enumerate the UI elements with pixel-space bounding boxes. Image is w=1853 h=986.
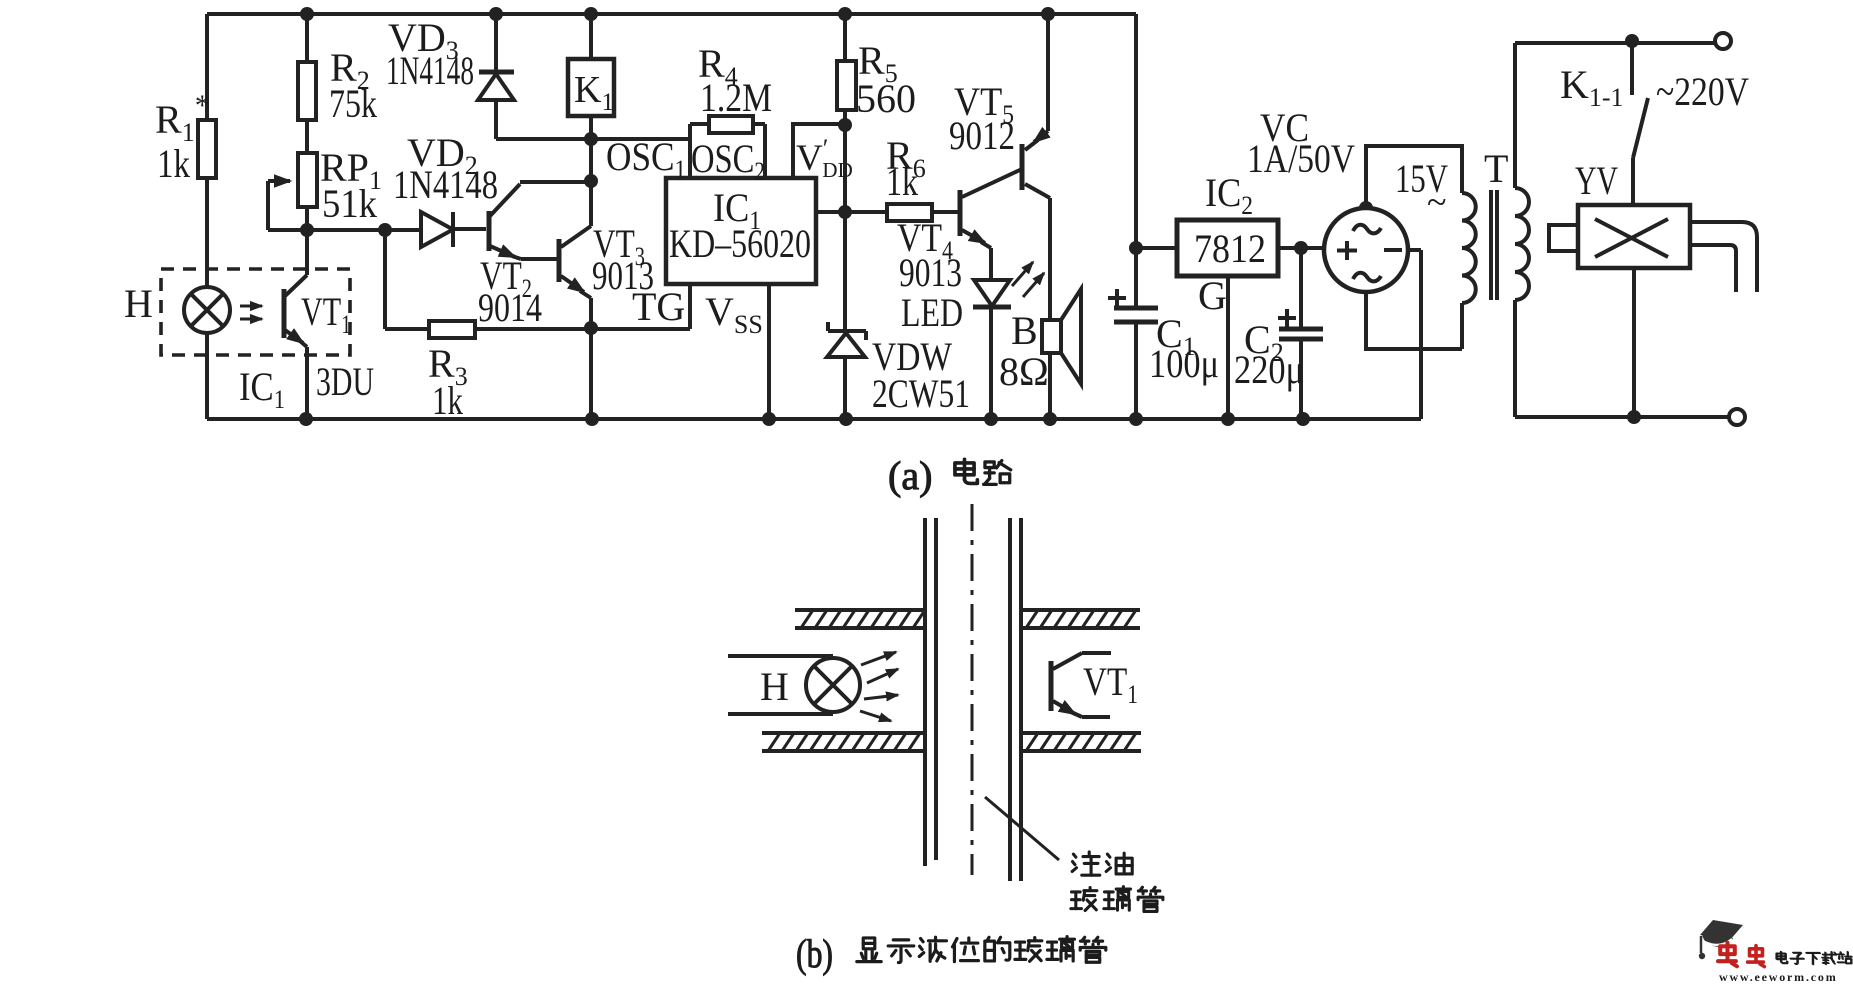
transistor VT3 (559, 139, 654, 419)
svg-text:www.eeworm.com: www.eeworm.com (1719, 970, 1838, 981)
wire RP1/VD2 node row (268, 207, 421, 329)
terminal bottom 220V (1729, 409, 1745, 425)
svg-text:1k: 1k (886, 159, 918, 204)
LED (901, 262, 1044, 419)
logo chongchong red characters (1718, 943, 1764, 967)
IC U1 KD-56020 (666, 178, 816, 284)
speaker B (999, 289, 1081, 419)
svg-text:9013: 9013 (899, 250, 962, 295)
transistor VT4 (897, 169, 1022, 295)
wire top rail right corner down to IC2 (1134, 14, 1138, 308)
diode VD3 (386, 14, 690, 139)
transformer T core (1491, 190, 1497, 300)
svg-text:H: H (124, 281, 153, 326)
pin TG (632, 284, 690, 329)
JUNCTION-DOTS (299, 7, 1641, 426)
svg-text:9012: 9012 (949, 113, 1015, 158)
transistor VT5 (9012 PNP) (949, 14, 1050, 320)
svg-text:3DU: 3DU (316, 359, 374, 404)
svg-text:1.2M: 1.2M (700, 75, 772, 120)
light arrows from H to VT1 (240, 305, 262, 308)
svg-text:(a): (a) (888, 453, 932, 498)
regulator IC2 7812 (1136, 170, 1324, 419)
node top rail junctions (300, 7, 314, 21)
svg-text:(b): (b) (796, 931, 833, 976)
svg-text:2CW51: 2CW51 (872, 371, 970, 416)
pin VDD' box (793, 124, 853, 182)
glass tube walls (925, 518, 1021, 881)
wire VDD vertical (843, 125, 847, 331)
node bottom rail junctions (299, 412, 313, 426)
zener VDW 2CW51 (827, 322, 970, 419)
phototransistor VT1 in figure b (1051, 653, 1138, 717)
lower wall right with hatching (1021, 733, 1141, 751)
terminal top 220V (1715, 33, 1731, 49)
svg-text:9014: 9014 (478, 285, 542, 330)
svg-text:7812: 7812 (1194, 226, 1266, 271)
svg-text:1k: 1k (157, 141, 190, 186)
wire left vertical (R1 branch) (205, 14, 209, 419)
svg-text:B: B (1011, 308, 1038, 353)
caption (a) dianlu (888, 453, 1011, 498)
switch K1-1 (1560, 41, 1648, 205)
svg-text:51k: 51k (322, 181, 377, 226)
capacitor C2 (1234, 248, 1323, 419)
lamp H (124, 281, 230, 333)
svg-text:1N4148: 1N4148 (393, 162, 498, 207)
diode VD2 (393, 130, 498, 247)
wire bridge bottom to secondary (1366, 292, 1462, 349)
caption (b) (796, 931, 1106, 976)
wire 220V bottom rail (1515, 415, 1729, 419)
optocoupler IC1 dashed box (161, 269, 350, 355)
label zhuyou (oil-filled) (1072, 852, 1132, 875)
svg-text:G: G (1198, 273, 1227, 318)
resistor R2 (298, 14, 377, 153)
svg-text:100μ: 100μ (1149, 341, 1219, 386)
bridge rectifier VC (1247, 105, 1408, 292)
wire bridge minus to ground (1408, 250, 1421, 419)
node misc junctions (300, 223, 314, 237)
svg-text:YV: YV (1575, 158, 1618, 203)
tube centerline dash-dot (971, 504, 974, 875)
svg-text:H: H (760, 664, 789, 709)
relay coil K1 (568, 14, 614, 139)
svg-text:~: ~ (1427, 182, 1446, 222)
capacitor C1 (1108, 289, 1219, 419)
transformer T secondary winding 15V (1462, 193, 1476, 303)
svg-text:T: T (1484, 146, 1508, 191)
solenoid valve YV (1549, 158, 1757, 417)
svg-text:TG: TG (632, 284, 685, 329)
svg-text:560: 560 (856, 76, 916, 121)
resistor R1 (155, 89, 216, 186)
transistor VT2 (478, 182, 591, 330)
upper wall right with hatching (1021, 610, 1140, 628)
label boliguang (glass tube) (1071, 887, 1163, 912)
logo text dianzixiazaizhan (1776, 952, 1852, 965)
transformer T primary winding (1515, 43, 1529, 417)
svg-text:OSC2: OSC2 (691, 136, 765, 186)
logo graduation cap (1699, 920, 1743, 959)
pin OSC2 (691, 124, 765, 186)
wire 220V top rail (1515, 41, 1716, 45)
potentiometer RP1 (268, 145, 382, 230)
wire top supply rail (207, 12, 1136, 16)
upper wall left with hatching (795, 610, 925, 628)
svg-text:1k: 1k (432, 378, 463, 423)
svg-text:1A/50V: 1A/50V (1247, 136, 1355, 181)
svg-text:75k: 75k (329, 81, 377, 126)
svg-text:~220V: ~220V (1656, 69, 1749, 114)
svg-text:LED: LED (901, 290, 963, 335)
lower wall left with hatching (762, 733, 925, 751)
resistor R3 (385, 321, 690, 423)
phototransistor VT1 (284, 230, 351, 419)
resistor R4 (690, 41, 772, 133)
wire bottom ground rail (207, 417, 1419, 421)
svg-text:8Ω: 8Ω (999, 349, 1049, 394)
svg-text:220μ: 220μ (1234, 347, 1304, 392)
light arrows in figure b (860, 652, 898, 721)
IC1 output wire (816, 210, 958, 214)
resistor R6 (886, 133, 932, 221)
pin VSS (705, 284, 769, 419)
lamp H in figure b (728, 656, 860, 714)
svg-text:OSC1: OSC1 (606, 134, 686, 184)
resistor R5 (837, 14, 916, 125)
svg-text:KD–56020: KD–56020 (669, 221, 811, 266)
svg-text:1N4148: 1N4148 (386, 48, 474, 93)
pin OSC1 (606, 124, 690, 184)
callout line to tube label (985, 797, 1059, 860)
wire bridge top to secondary (1366, 146, 1462, 208)
